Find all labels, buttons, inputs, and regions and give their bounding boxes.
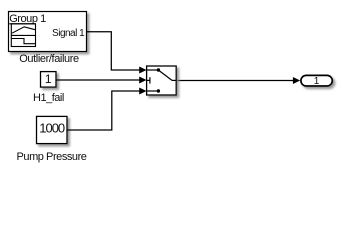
svg-text:H1_fail: H1_fail <box>33 92 64 104</box>
svg-text:Pump Pressure: Pump Pressure <box>17 151 87 163</box>
svg-text:1000: 1000 <box>39 121 65 136</box>
svg-text:Signal 1: Signal 1 <box>52 28 85 39</box>
svg-text:1: 1 <box>45 72 52 86</box>
svg-text:Outlier/failure: Outlier/failure <box>19 53 79 65</box>
svg-text:1: 1 <box>314 76 320 87</box>
